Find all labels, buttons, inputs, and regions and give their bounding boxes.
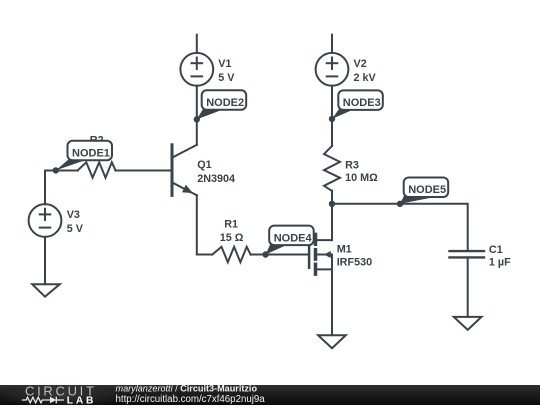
svg-text:NODE1: NODE1 [72,148,110,160]
label V1 value [218,58,235,84]
wire V3 to ground [44,237,46,284]
label R1 value [220,218,244,244]
resistor R3 [324,146,340,191]
capacitor C1 [450,251,485,257]
node NODE4 [262,226,313,258]
svg-text:C1: C1 [489,244,503,256]
svg-text:M1: M1 [337,244,352,256]
svg-text:V3: V3 [67,209,80,221]
svg-text:NODE5: NODE5 [408,184,446,196]
logo symbol resistor-diode [22,397,64,404]
node NODE2 [194,90,247,122]
wire R3 to node [331,191,333,204]
svg-text:R1: R1 [224,218,238,230]
svg-text:2 kV: 2 kV [354,72,377,84]
voltage source V3 [29,204,62,237]
ground below M1 [318,335,346,348]
svg-text:V2: V2 [354,58,367,70]
wire V2 to R3 [331,86,333,147]
resistor R2 [78,162,116,177]
logo CIRCUIT [25,383,97,398]
label R3 value [345,159,378,184]
footer bar [0,383,540,409]
wire M1 source to ground [331,255,333,336]
svg-text:5 V: 5 V [67,223,84,235]
transistor Q1 [172,145,197,196]
voltage source V2 [316,53,349,86]
svg-text:2N3904: 2N3904 [197,173,235,185]
svg-text:15 Ω: 15 Ω [220,232,244,244]
svg-text:http://circuitlab.com/c7xf46p2: http://circuitlab.com/c7xf46p2nuj9a [116,394,266,405]
svg-text:10 MΩ: 10 MΩ [345,172,378,184]
wire C1 to ground [467,257,469,317]
svg-text:NODE3: NODE3 [343,97,381,109]
node NODE5 [397,178,448,208]
label V2 value [354,58,377,84]
label Q1 value [197,159,235,185]
node NODE3 [329,90,383,122]
svg-text:IRF530: IRF530 [337,256,372,268]
wire V3 to base row [45,171,78,205]
wire V1 top stub [196,35,198,53]
junction dot drain node [329,201,335,207]
label C1 value [489,244,511,268]
ground below V3 [32,284,60,297]
ground below C1 [454,317,482,330]
wire V2 top stub [331,35,333,53]
label V3 value [67,209,84,235]
logo LAB [67,395,96,406]
mosfet M1 [309,234,332,274]
svg-text:NODE4: NODE4 [274,232,313,244]
footer credit text [116,383,266,405]
svg-text:V1: V1 [218,58,231,70]
node NODE1 [53,141,112,174]
wire M1 drain [331,204,333,240]
label M1 value [337,244,372,269]
resistor R1 [212,247,250,262]
wire R2 to Q1 base [116,170,171,172]
svg-text:R3: R3 [345,159,359,171]
svg-text:5 V: 5 V [218,72,235,84]
wire V1 to Q1 collector [196,86,198,145]
svg-text:LAB: LAB [67,395,96,405]
wire R1 to M1 gate [251,254,309,256]
voltage source V1 [180,53,213,86]
svg-text:Q1: Q1 [197,159,211,171]
wire Q1 emitter to R1 [197,195,213,254]
svg-text:NODE2: NODE2 [206,97,244,109]
wire top horizontal to C1 [332,204,468,251]
svg-text:1 µF: 1 µF [489,256,511,268]
svg-text:marylanzerotti / Circuit3-Maur: marylanzerotti / Circuit3-Mauritzio [116,383,258,393]
label R2 [90,134,104,146]
